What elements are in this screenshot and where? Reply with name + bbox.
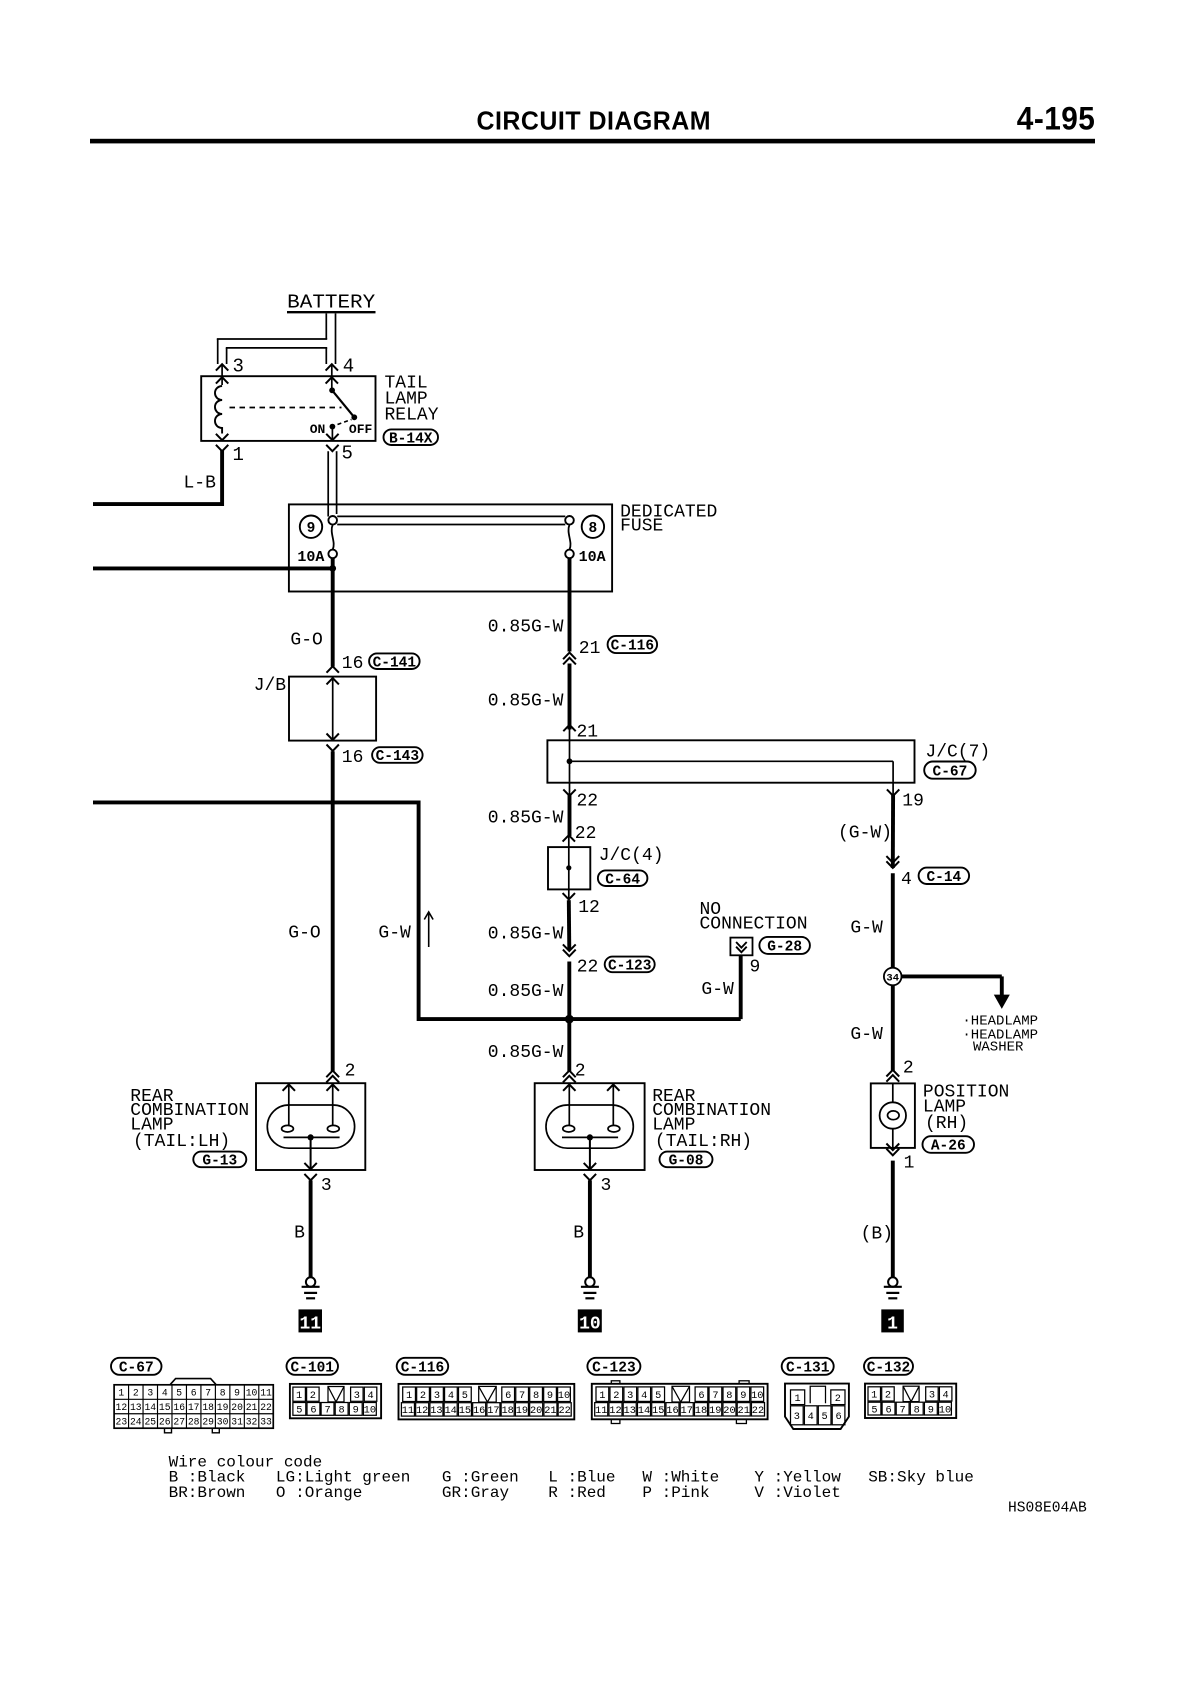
connector ref C-67 [924,762,976,779]
lamp RH pin 2 entry marker [563,1071,576,1078]
connector ref G-13 [193,1152,246,1168]
lamp LH pin 3 exit [304,1163,316,1169]
svg-text:30: 30 [217,1416,229,1427]
svg-text:31: 31 [231,1416,243,1427]
svg-text:0.85G-W: 0.85G-W [488,618,564,638]
svg-text:19: 19 [516,1405,528,1417]
no-connection terminal box G-28 pin 9 [730,938,752,956]
splice 34 circle [884,968,902,986]
svg-text:4-195: 4-195 [1017,101,1096,137]
svg-text:B: B [294,1223,305,1243]
connector ref C-141 [369,653,420,669]
joint connector J/C(4) box C-64 [548,847,590,889]
svg-text:6: 6 [191,1388,197,1399]
svg-text:3: 3 [147,1388,153,1399]
svg-text:(RH): (RH) [925,1114,968,1134]
svg-text:C-116: C-116 [611,639,655,655]
svg-text:10A: 10A [297,549,324,566]
svg-text:1: 1 [296,1390,302,1402]
svg-text:2: 2 [345,1062,356,1082]
svg-text:22: 22 [260,1402,272,1413]
svg-text:28: 28 [188,1416,200,1427]
svg-text:2: 2 [310,1390,316,1402]
svg-text:4: 4 [901,870,912,890]
svg-text:23: 23 [116,1416,128,1427]
svg-text:17: 17 [487,1405,499,1417]
wire B lamp LH to ground [309,1180,313,1277]
svg-text:CIRCUIT DIAGRAM: CIRCUIT DIAGRAM [477,105,712,135]
svg-text:2: 2 [885,1390,891,1402]
position lamp pin 2 entry marker [886,1070,899,1077]
svg-text:24: 24 [130,1416,142,1427]
svg-text:27: 27 [173,1416,185,1427]
svg-text:C-131: C-131 [786,1361,830,1377]
svg-text:16: 16 [473,1405,485,1417]
svg-text:15: 15 [459,1405,471,1417]
svg-text:9: 9 [928,1404,934,1416]
wire B lamp RH to ground [588,1180,592,1277]
svg-text:7: 7 [205,1388,211,1399]
lamp LH common junction [308,1134,314,1140]
svg-text:21: 21 [246,1402,258,1413]
svg-text:C-101: C-101 [290,1361,334,1377]
fuse F8 element [565,516,574,525]
connector ref C-116 [608,636,658,653]
relay switch wire to pin 5 [331,427,333,440]
svg-text:BR:Brown: BR:Brown [169,1484,246,1502]
svg-text:22: 22 [577,791,599,811]
ground reference numeral 1 [881,1309,904,1332]
svg-text:6: 6 [835,1411,841,1423]
wire G-O J/B down to rear combination lamp LH [331,751,335,1071]
svg-text:C-64: C-64 [605,872,640,888]
relay coil to contact dashed link [230,407,342,409]
wire fuse 8 output down [568,558,572,651]
svg-text:C-67: C-67 [933,764,968,780]
svg-text:2: 2 [575,1062,586,1082]
rear combination lamp RH box G-08 [535,1083,645,1170]
lamp RH pin 2 internal wire [563,1084,575,1090]
svg-text:(TAIL:RH): (TAIL:RH) [655,1132,752,1152]
svg-text:10A: 10A [579,549,606,566]
connector C-67 top key tab [170,1379,216,1385]
svg-text:1: 1 [599,1390,605,1402]
inline connector C-116 pin 21 marker [563,653,576,660]
lamp RH common junction [587,1134,593,1140]
ground G10 symbol (RH) [585,1277,594,1286]
branch arrowhead [994,995,1010,1009]
relay connector ref B-14X [384,429,439,445]
svg-text:2: 2 [613,1390,619,1402]
svg-text:9: 9 [547,1390,553,1402]
svg-text:7: 7 [519,1390,525,1402]
svg-text:4: 4 [162,1388,168,1399]
svg-text:V :Violet: V :Violet [754,1484,840,1502]
svg-text:4: 4 [808,1411,814,1423]
svg-text:17: 17 [681,1405,693,1417]
svg-text:18: 18 [501,1405,513,1417]
svg-text:10: 10 [579,1314,601,1334]
connector ref C-14 [919,868,970,884]
svg-text:14: 14 [144,1402,156,1413]
J/C(7) pin 21 entry [563,725,575,731]
lamp LH filament common wire [284,1136,340,1138]
svg-text:22: 22 [752,1405,764,1417]
svg-text:17: 17 [188,1402,200,1413]
wire direction arrow [428,913,430,947]
connector C-67 bottom tabs [165,1428,172,1433]
svg-text:3: 3 [354,1390,360,1402]
svg-text:2: 2 [133,1388,139,1399]
svg-text:13: 13 [130,1402,142,1413]
svg-text:34: 34 [886,972,899,984]
svg-text:BATTERY: BATTERY [287,292,376,314]
svg-text:4: 4 [641,1390,647,1402]
wire G-W splice 34 to position lamp [891,985,895,1071]
J/B pin 16 entry C-141 [327,666,339,672]
wire G-W from J/C(7) pin 19 down [891,794,895,869]
svg-text:13: 13 [430,1405,442,1417]
svg-text:J/C(7): J/C(7) [925,742,990,762]
svg-text:C-132: C-132 [867,1361,911,1377]
J/C(4) pin 22 entry [563,835,575,841]
svg-text:0.85G-W: 0.85G-W [488,692,564,712]
svg-text:(B): (B) [861,1224,893,1244]
ground reference numeral 10 [578,1309,602,1332]
svg-text:7: 7 [712,1390,718,1402]
svg-text:22: 22 [577,958,599,978]
svg-text:O :Orange: O :Orange [276,1484,362,1502]
fuse number 9 circle [300,516,322,538]
svg-text:11: 11 [299,1314,321,1334]
connector C-67 label [111,1358,162,1375]
branch wire to headlamp circuits [902,974,1002,978]
svg-text:10: 10 [751,1390,763,1402]
svg-text:21: 21 [579,639,601,659]
svg-text:2: 2 [835,1393,841,1405]
relay pin 1 exit [216,434,228,440]
svg-text:2: 2 [903,1059,914,1079]
relay connector pin 4 [326,364,338,370]
connector ref A-26 [923,1136,975,1153]
relay switch dashed throw to ON contact [338,420,352,425]
svg-text:WASHER: WASHER [973,1040,1024,1056]
svg-text:6: 6 [505,1390,511,1402]
svg-text:OFF: OFF [349,422,373,437]
svg-text:3: 3 [627,1390,633,1402]
lamp LH stub terminal arrow [283,1084,295,1090]
svg-text:3: 3 [321,1176,332,1196]
svg-text:9: 9 [353,1405,359,1417]
svg-text:2: 2 [420,1390,426,1402]
svg-text:SB:Sky blue: SB:Sky blue [868,1468,974,1486]
svg-text:10: 10 [246,1388,258,1399]
J/C(4) internal wire and junction [568,848,570,889]
svg-text:6: 6 [698,1390,704,1402]
relay ON contact [330,424,336,430]
svg-text:6: 6 [310,1405,316,1417]
fuse number 8 circle [582,516,604,538]
svg-text:12: 12 [416,1405,428,1417]
svg-text:8: 8 [339,1405,345,1417]
lamp RH bulb outline [546,1105,633,1148]
svg-text:21: 21 [544,1405,556,1417]
svg-text:R :Red: R :Red [548,1484,606,1502]
ground G1 symbol (position lamp) [888,1277,897,1286]
svg-text:5: 5 [462,1390,468,1402]
J/C(7) internal wire and junction [569,741,571,782]
svg-text:B: B [573,1223,584,1243]
connector ref C-64 [598,870,648,886]
svg-text:G-13: G-13 [202,1154,237,1170]
connector ref G-08 [660,1152,713,1168]
lamp LH pin 2 internal wire [327,1084,339,1090]
svg-text:C-123: C-123 [592,1361,636,1377]
svg-text:9: 9 [307,521,316,537]
ground reference numeral 11 [299,1309,323,1332]
svg-text:4: 4 [367,1390,373,1402]
joint connector J/C(7) box C-67 [547,740,914,782]
lamp LH pin 3 internal wire [310,1137,312,1169]
svg-text:7: 7 [900,1404,906,1416]
svg-text:19: 19 [709,1405,721,1417]
position lamp pin 1 exit marker [886,1149,899,1156]
svg-text:(TAIL:LH): (TAIL:LH) [133,1132,230,1152]
svg-text:29: 29 [202,1416,214,1427]
svg-text:19: 19 [217,1402,229,1413]
lamp RH filament left [563,1125,575,1132]
svg-text:5: 5 [296,1405,302,1417]
fuse bus double-line between fuse 9 and fuse 8 [337,515,565,517]
svg-text:16: 16 [666,1405,678,1417]
relay connector pin 3 [216,364,228,370]
svg-text:L-B: L-B [184,474,217,494]
svg-text:7: 7 [324,1405,330,1417]
svg-text:C-141: C-141 [373,655,417,671]
svg-text:12: 12 [609,1405,621,1417]
wire 0.85G-W from J/C(4) to C-123 [567,900,571,950]
svg-text:12: 12 [578,898,600,918]
wire G-W from C-14 to splice 34 [891,873,895,968]
svg-text:18: 18 [202,1402,214,1413]
relay U1 TAIL LAMP RELAY box [201,376,375,441]
svg-text:25: 25 [144,1416,156,1427]
svg-text:C-116: C-116 [401,1361,445,1377]
lamp LH filament right [327,1125,339,1132]
wire branch to relay pin 3 double-line [217,338,327,340]
junction bus / lamp RH feed [565,1015,574,1024]
J/C(7) pin 22 exit [563,789,575,795]
lamp LH pin 2 entry marker [326,1071,339,1078]
svg-text:18: 18 [695,1405,707,1417]
wire relay pin 5 to fuse double-line [327,451,329,516]
lamp RH filament common wire [562,1136,618,1138]
lamp RH filament right [608,1125,620,1132]
wire fuse 9 output [331,558,335,571]
svg-text:B-14X: B-14X [389,431,433,447]
svg-text:HS08E04AB: HS08E04AB [1008,1500,1087,1516]
svg-text:8: 8 [914,1404,920,1416]
svg-text:9: 9 [234,1388,240,1399]
svg-text:G-28: G-28 [767,940,802,956]
svg-text:FUSE: FUSE [620,517,663,537]
svg-text:19: 19 [902,791,924,811]
position lamp bulb [892,1084,894,1103]
svg-text:1: 1 [887,1314,898,1334]
svg-text:5: 5 [655,1390,661,1402]
svg-text:1: 1 [904,1154,915,1174]
svg-text:8: 8 [589,521,598,537]
svg-text:9: 9 [740,1390,746,1402]
svg-text:0.85G-W: 0.85G-W [488,982,564,1002]
connector C-123 label and pin grid [587,1358,640,1375]
junction block J/B box [289,677,376,741]
svg-text:3: 3 [929,1390,935,1402]
svg-text:J/C(4): J/C(4) [599,846,664,866]
svg-text:8: 8 [533,1390,539,1402]
junction fuse 9 / feed bus [329,565,336,572]
svg-text:4: 4 [448,1390,454,1402]
J/B internal wire [332,678,334,740]
svg-text:15: 15 [159,1402,171,1413]
connector C-101 label and pin grid [287,1358,339,1375]
feed bus wire from left edge into fuse box [93,566,333,570]
svg-text:G-O: G-O [290,631,322,651]
svg-text:1: 1 [871,1390,877,1402]
svg-text:CONNECTION: CONNECTION [700,915,808,935]
svg-text:15: 15 [652,1405,664,1417]
connector ref G-28 [759,937,810,954]
svg-text:1: 1 [233,444,244,466]
svg-text:G-W: G-W [378,924,411,944]
svg-text:20: 20 [530,1405,542,1417]
connector C-116 label and pin grid [397,1358,449,1375]
svg-text:26: 26 [159,1416,171,1427]
svg-text:3: 3 [434,1390,440,1402]
lamp LH filament left [282,1125,294,1132]
wire L-B from relay pin 1 to left edge [93,451,222,505]
ground G11 symbol (LH) [306,1277,315,1286]
svg-text:11: 11 [260,1388,272,1399]
svg-text:8: 8 [726,1390,732,1402]
svg-text:ON: ON [310,422,326,437]
lamp RH pin 3 exit [584,1163,596,1169]
J/B pin 16 exit C-143 [327,734,339,740]
svg-text:32: 32 [246,1416,258,1427]
svg-text:C-67: C-67 [119,1361,154,1377]
lamp RH stub terminal arrow [607,1084,619,1090]
position lamp RH box A-26 [871,1083,915,1148]
svg-text:11: 11 [595,1405,607,1417]
relay switch common contact pin 4 [329,387,335,393]
svg-text:4: 4 [943,1390,949,1402]
connector C-132 label and pin grid [864,1358,913,1375]
svg-text:21: 21 [738,1405,750,1417]
svg-text:5: 5 [342,442,353,464]
lamp LH bulb outline [267,1105,354,1148]
fuse F9 element [328,516,337,525]
svg-text:12: 12 [116,1402,128,1413]
fuse box DEDICATED FUSE [289,504,612,591]
svg-text:3: 3 [601,1176,612,1196]
svg-text:14: 14 [638,1405,650,1417]
svg-text:14: 14 [444,1405,456,1417]
svg-text:22: 22 [558,1405,570,1417]
svg-text:P :Pink: P :Pink [642,1484,709,1502]
svg-text:G-W: G-W [850,919,883,939]
connector ref C-123 [605,957,655,973]
connector ref C-143 [372,747,423,763]
svg-text:16: 16 [173,1402,185,1413]
svg-text:16: 16 [342,748,364,768]
svg-text:A-26: A-26 [931,1139,966,1155]
svg-text:G-08: G-08 [669,1154,704,1170]
svg-text:8: 8 [220,1388,226,1399]
relay switch blade (shown OFF) [332,390,354,417]
svg-text:5: 5 [871,1404,877,1416]
svg-text:GR:Gray: GR:Gray [442,1484,510,1502]
svg-text:0.85G-W: 0.85G-W [488,808,564,828]
svg-text:10: 10 [939,1404,951,1416]
svg-text:1: 1 [406,1390,412,1402]
svg-text:C-123: C-123 [608,959,652,975]
wire battery feed double-line down to relay [325,314,327,340]
header rule [90,139,1095,144]
svg-text:0.85G-W: 0.85G-W [488,1043,564,1063]
svg-text:22: 22 [575,824,597,844]
wire stub to G-28 no-connection [739,955,743,1019]
svg-text:G-W: G-W [850,1025,883,1045]
svg-text:G-O: G-O [288,924,320,944]
svg-text:C-14: C-14 [926,870,961,886]
svg-text:6: 6 [885,1404,891,1416]
svg-text:1: 1 [795,1393,801,1405]
J/C(4) pin 12 exit [563,893,575,899]
svg-text:9: 9 [750,957,761,977]
wire (B) position lamp to ground [891,1161,895,1278]
svg-text:4: 4 [343,355,354,377]
svg-text:1: 1 [118,1388,124,1399]
J/C(7) pin 19 exit [887,789,899,795]
svg-text:20: 20 [723,1405,735,1417]
connector C-67 pin grid 1-33 [114,1385,273,1428]
svg-text:(G-W): (G-W) [838,824,892,844]
svg-text:0.85G-W: 0.85G-W [488,924,564,944]
svg-text:J/B: J/B [254,676,287,696]
svg-text:10: 10 [558,1390,570,1402]
svg-text:G-W: G-W [701,980,734,1000]
svg-text:33: 33 [260,1416,272,1427]
wire 0.85G-W from C-123 to junction [567,962,571,1020]
svg-text:5: 5 [822,1411,828,1423]
svg-text:13: 13 [624,1405,636,1417]
svg-text:16: 16 [342,654,364,674]
svg-text:3: 3 [233,355,244,377]
svg-text:5: 5 [176,1388,182,1399]
connector C-131 label and pin shape [782,1358,834,1375]
lamp RH pin 3 internal wire [589,1137,591,1169]
relay coil [215,386,222,434]
svg-text:RELAY: RELAY [385,405,439,425]
inline connector C-123 pin 22 marker [563,950,576,957]
wire 0.85G-W from J/C(7) pin 22 to J/C(4) [568,794,572,837]
feed bus G-W from left edge [93,802,741,1019]
svg-text:11: 11 [402,1405,414,1417]
wire G-O fuse 9 to J/B [331,568,335,666]
rear combination lamp LH box G-13 [256,1083,365,1170]
relay pin 5 exit [326,434,338,440]
inline connector C-14 pin 4 marker [886,861,899,868]
